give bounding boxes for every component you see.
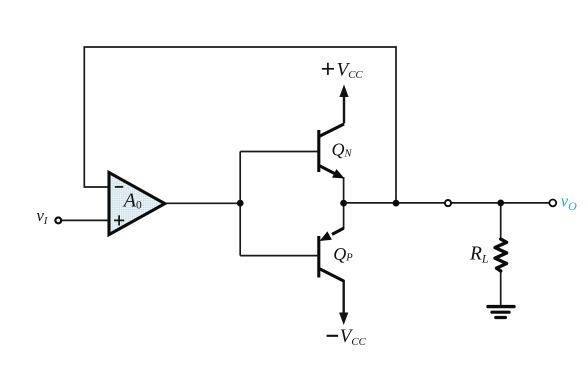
svg-text:QP: QP (333, 244, 353, 264)
svg-text:QN: QN (332, 140, 353, 160)
svg-text:VCC: VCC (337, 60, 364, 82)
svg-text:vO: vO (561, 192, 577, 213)
svg-text:VCC: VCC (340, 326, 367, 348)
svg-text:RL: RL (469, 244, 489, 266)
svg-text:vI: vI (37, 206, 48, 227)
